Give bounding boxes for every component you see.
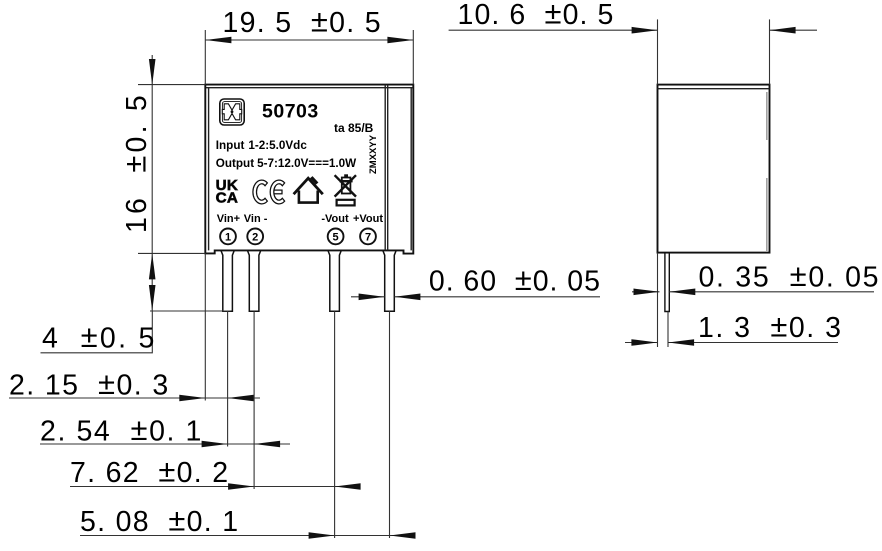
7.62 dimension line xyxy=(70,486,340,488)
side box left edge extension down xyxy=(657,253,659,347)
side view top inner line xyxy=(658,88,770,90)
10.6 extension (box edges up) xyxy=(657,19,659,84)
pin 1 xyxy=(221,250,234,311)
19.5 extension lines xyxy=(204,30,206,85)
svg-text:4 ±0. 5: 4 ±0. 5 xyxy=(42,319,157,355)
5.08 arrows xyxy=(309,532,335,539)
19.5 dimension line xyxy=(205,39,413,41)
2.15 arrows xyxy=(179,395,205,402)
2.15 dimension line xyxy=(9,397,260,399)
arrowheads xyxy=(149,27,796,539)
0.60 arrows xyxy=(359,294,385,301)
10.6 dimension line xyxy=(449,29,658,31)
WEEE crossed-out bin icon xyxy=(335,174,356,205)
CE mark xyxy=(253,180,285,204)
side view inner right line xyxy=(766,92,768,251)
left edge extension down xyxy=(204,253,206,400)
10.6 arrows xyxy=(632,27,658,34)
19.5 arrows xyxy=(205,37,231,44)
pin number 2 xyxy=(247,229,263,245)
svg-text:7. 62 ±0. 2: 7. 62 ±0. 2 xyxy=(70,454,229,490)
1.3 arrows xyxy=(631,339,657,346)
side view body xyxy=(658,85,770,253)
logo xyxy=(220,99,244,125)
5.08 dimension line xyxy=(80,535,410,537)
4 arrow xyxy=(149,285,156,311)
0.35 dimension line xyxy=(632,291,660,293)
UKCA mark xyxy=(216,177,239,207)
pin 2 xyxy=(247,250,260,311)
pin2 centerline xyxy=(253,311,255,489)
svg-text:1. 3 ±0. 3: 1. 3 ±0. 3 xyxy=(698,309,842,345)
svg-text:ZMXXYY: ZMXXYY xyxy=(368,134,379,174)
svg-text:+Vout: +Vout xyxy=(353,213,383,225)
svg-text:Vin -: Vin - xyxy=(244,213,268,225)
side pin centerline xyxy=(667,312,669,348)
svg-text:7: 7 xyxy=(365,231,371,243)
pin number 1 xyxy=(220,229,236,245)
svg-text:2: 2 xyxy=(252,231,258,243)
case parting line xyxy=(385,85,388,251)
svg-text:CA: CA xyxy=(216,190,239,207)
svg-text:Vin+: Vin+ xyxy=(217,213,240,225)
svg-text:16 ±0. 5: 16 ±0. 5 xyxy=(118,92,154,233)
svg-text:1: 1 xyxy=(225,231,231,243)
7.62 arrows xyxy=(228,483,254,490)
svg-text:10. 6 ±0. 5: 10. 6 ±0. 5 xyxy=(458,0,615,31)
svg-text:5: 5 xyxy=(333,231,339,243)
svg-text:0. 35 ±0. 05: 0. 35 ±0. 05 xyxy=(699,258,881,294)
0.60 dimension line xyxy=(351,296,385,298)
pin number 7 xyxy=(360,229,376,245)
16 / 4 dimension line xyxy=(151,55,153,311)
svg-text:5. 08 ±0. 1: 5. 08 ±0. 1 xyxy=(80,503,239,539)
pin5 centerline xyxy=(334,311,336,538)
svg-text:Output5-7:12.0V===1.0W: Output5-7:12.0V===1.0W xyxy=(216,157,357,170)
2.54 arrows xyxy=(202,441,228,448)
pin7 centerline xyxy=(389,311,391,538)
0.35 arrows xyxy=(634,289,660,296)
svg-text:Input1-2:5.0Vdc: Input1-2:5.0Vdc xyxy=(216,139,308,152)
2.54 dimension line xyxy=(40,443,290,445)
module inner offset lines xyxy=(206,88,413,251)
side view pin xyxy=(665,253,669,312)
svg-text:2. 15 ±0. 3: 2. 15 ±0. 3 xyxy=(9,366,170,402)
16 extension lines xyxy=(138,84,205,86)
pin 5 xyxy=(328,250,341,311)
house icon (indoor use) xyxy=(294,176,323,203)
svg-text:50703: 50703 xyxy=(262,101,319,123)
svg-text:0. 60 ±0. 05: 0. 60 ±0. 05 xyxy=(429,262,601,298)
svg-text:19. 5 ±0. 5: 19. 5 ±0. 5 xyxy=(223,4,382,40)
16 arrows xyxy=(149,59,156,85)
pin 7 xyxy=(383,250,396,311)
pin number 5 xyxy=(328,229,344,245)
4 leader xyxy=(41,311,153,353)
1.3 dimension line xyxy=(625,342,657,344)
module body outline xyxy=(205,85,413,254)
svg-text:2. 54 ±0. 1: 2. 54 ±0. 1 xyxy=(40,412,203,448)
svg-text:ta 85/B: ta 85/B xyxy=(334,121,374,135)
pin1 centerline xyxy=(227,311,229,446)
svg-text:-Vout: -Vout xyxy=(321,213,349,225)
4 tick line xyxy=(150,310,231,312)
